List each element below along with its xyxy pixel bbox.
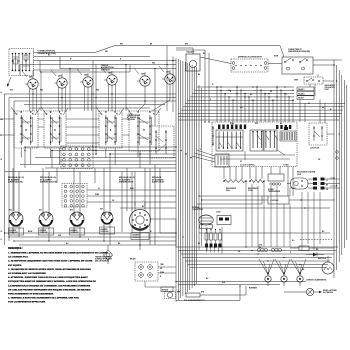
svg-text:H2: H2 bbox=[32, 114, 34, 116]
svg-text:T-STAT: T-STAT bbox=[283, 164, 290, 167]
svg-text:OR: OR bbox=[326, 189, 328, 191]
label: connecteur du gradateur bbox=[38, 51, 57, 55]
chassis ground G1 bbox=[284, 288, 337, 295]
wire: nested corner at right bbox=[199, 231, 332, 242]
svg-text:VENT: VENT bbox=[294, 80, 298, 82]
terminal block fan-in wires bbox=[259, 259, 306, 275]
svg-text:CONV FOUR: CONV FOUR bbox=[310, 147, 320, 149]
connector hatch row P4 bbox=[205, 229, 222, 244]
label: temoin elements surface bbox=[101, 65, 115, 71]
svg-text:ARRIERE GAUCHE: ARRIERE GAUCHE bbox=[40, 181, 58, 184]
svg-text:1- DEBRANCHER L'APPAREIL DU SE: 1- DEBRANCHER L'APPAREIL DU SECTEUR AVAN… bbox=[8, 252, 108, 255]
wire: crossings between switch boxes bbox=[0, 119, 129, 143]
relay switch S5 bbox=[150, 126, 174, 158]
svg-text:V: V bbox=[200, 149, 201, 151]
wire: mid link horizontals bbox=[197, 188, 335, 208]
svg-text:SELECT: SELECT bbox=[298, 98, 304, 100]
wire: verticals from band to elements bbox=[13, 148, 145, 207]
wire: band to right at y147-168 bbox=[5, 147, 177, 172]
wire: right side verticals to vent/relays bbox=[300, 84, 325, 123]
thermal fuse F1 bbox=[290, 246, 318, 251]
svg-text:H2: H2 bbox=[60, 114, 62, 116]
svg-text:N: N bbox=[1, 239, 2, 241]
svg-text:W12: W12 bbox=[120, 44, 123, 46]
terminal block TB1 (top-left dimmer connector) bbox=[9, 49, 34, 76]
svg-text:H2: H2 bbox=[153, 114, 155, 116]
diode D1 bbox=[306, 253, 324, 257]
power terminal 1 bbox=[265, 272, 271, 286]
conv-four relay box bbox=[309, 123, 327, 149]
dimmer switch assembly DM1 bbox=[268, 56, 342, 78]
svg-text:H1: H1 bbox=[16, 114, 18, 116]
svg-text:L1: L1 bbox=[1, 92, 3, 94]
wire: clock box to coils verticals bbox=[224, 167, 293, 197]
svg-text:GY: GY bbox=[240, 161, 242, 163]
svg-text:L1: L1 bbox=[326, 180, 328, 182]
surface switch SW5 bbox=[137, 72, 150, 90]
connector P2 grid bbox=[62, 184, 87, 208]
wire: ballast to fluorescent bbox=[176, 48, 231, 64]
surface element E5 (large) bbox=[130, 202, 151, 240]
label: temoin indicateur elements bbox=[95, 256, 112, 263]
svg-text:BU: BU bbox=[280, 123, 282, 125]
wire: right-half horizontal grid bbox=[178, 87, 345, 120]
junction dots scatter bbox=[4, 60, 340, 287]
notes text block bbox=[8, 247, 108, 304]
bake resistance coil R-FOUR bbox=[248, 180, 265, 193]
svg-text:BK: BK bbox=[326, 185, 328, 187]
svg-text:EST EQUIPE.: EST EQUIPE. bbox=[8, 265, 22, 267]
power terminal 2 bbox=[281, 272, 287, 286]
svg-text:W33: W33 bbox=[100, 209, 103, 211]
wire: horizontals right of P2 grid bbox=[87, 190, 176, 208]
svg-text:APPAREILS FLUORESCENTS: APPAREILS FLUORESCENTS bbox=[238, 56, 263, 59]
svg-text:W31: W31 bbox=[39, 210, 42, 212]
svg-text:REMARQUE :: REMARQUE : bbox=[8, 247, 23, 250]
svg-text:CENTRAL: CENTRAL bbox=[127, 118, 135, 121]
oven sensor SONDE bbox=[268, 174, 284, 193]
wire labels bottom-left bbox=[28, 231, 152, 245]
label: bornier bbox=[249, 288, 258, 290]
surface switch SW4 bbox=[104, 71, 117, 89]
svg-text:LE SCHEMA AVEC LA FOURNITURE.: LE SCHEMA AVEC LA FOURNITURE. bbox=[8, 272, 47, 275]
svg-text:5- VERIFIER LE BON FONCTIONNEM: 5- VERIFIER LE BON FONCTIONNEMENT DE L'A… bbox=[8, 297, 79, 300]
wire: switch row drops bbox=[22, 66, 170, 111]
relay label boxes stack bbox=[297, 87, 314, 100]
broil resistance coil R-GRIL bbox=[223, 180, 247, 193]
svg-text:BU: BU bbox=[322, 231, 324, 233]
aux control box bbox=[268, 196, 289, 204]
svg-text:W10: W10 bbox=[185, 44, 188, 46]
svg-text:CONNECTEUR ET: CONNECTEUR ET bbox=[288, 49, 302, 51]
infinite switch S1 bbox=[11, 107, 40, 148]
svg-text:DE CABLAGE PEUVENT ENTRAINER D: DE CABLAGE PEUVENT ENTRAINER DES RISQUES… bbox=[8, 288, 91, 291]
svg-text:H1: H1 bbox=[101, 114, 103, 116]
oven heat regulator module bbox=[287, 171, 340, 192]
label: relais indicator wires bbox=[130, 258, 176, 288]
svg-text:CONVECTION: CONVECTION bbox=[192, 209, 203, 211]
wire: right bus connectors to modules bbox=[318, 81, 337, 248]
junction dots on band bbox=[24, 146, 140, 154]
svg-text:Y: Y bbox=[286, 94, 287, 96]
connector P1 grid bbox=[61, 146, 93, 169]
indicator lamp cluster (dashed box) bbox=[135, 262, 158, 281]
arrow to TB1 bbox=[7, 77, 11, 87]
svg-text:FOIS LA REPARATION EFFECTUEE.: FOIS LA REPARATION EFFECTUEE. bbox=[8, 301, 46, 304]
svg-text:CLOCK CONTROL: CLOCK CONTROL bbox=[240, 165, 255, 167]
svg-text:W31: W31 bbox=[10, 90, 13, 92]
svg-text:L2: L2 bbox=[1, 231, 3, 233]
svg-text:W11: W11 bbox=[105, 51, 108, 53]
wire: bottom bus right half bbox=[176, 282, 306, 301]
wire: top bus from TB1 to right half bbox=[34, 46, 281, 61]
wire: mid verticals bbox=[41, 46, 173, 156]
svg-text:AVANT GAUCHE: AVANT GAUCHE bbox=[8, 181, 23, 184]
wire: right edge vertical bus bbox=[334, 60, 347, 278]
clock hatched block bbox=[280, 127, 296, 141]
wire: left edge verticals bbox=[5, 94, 15, 245]
clock left column bbox=[212, 126, 213, 146]
svg-text:AVANT DROIT: AVANT DROIT bbox=[152, 181, 165, 184]
wire: clock drop verticals bbox=[216, 86, 293, 122]
vent fan switch bbox=[294, 77, 336, 91]
svg-text:H2: H2 bbox=[116, 114, 118, 116]
wire: bottom-left horizontal bus bbox=[5, 233, 177, 245]
svg-text:W32: W32 bbox=[70, 210, 73, 212]
convection motor M1 bbox=[192, 207, 231, 228]
svg-text:BALLAST: BALLAST bbox=[187, 51, 196, 54]
indicator lamp L1 (diamond) bbox=[104, 245, 113, 264]
wire labels mid-left bbox=[95, 188, 144, 208]
wire: crossover band left-to-right y228-248 bbox=[150, 219, 176, 247]
svg-text:2- SE REPORTER UNIQUEMENT AUX: 2- SE REPORTER UNIQUEMENT AUX FONCTIONS … bbox=[8, 260, 93, 263]
surface switch SW6 bbox=[162, 70, 175, 88]
ballast B1 bbox=[186, 51, 200, 72]
svg-text:ARRIERE DROIT: ARRIERE DROIT bbox=[119, 181, 134, 184]
svg-text:GRIL: GRIL bbox=[226, 190, 230, 192]
fluorescent lamp assembly FL1 bbox=[231, 56, 268, 73]
surface element E2 bbox=[39, 207, 54, 235]
svg-text:GY: GY bbox=[98, 188, 100, 190]
wire: element interconnect verticals bbox=[13, 224, 110, 245]
power terminal 3 bbox=[297, 272, 303, 286]
surface switch SW1 bbox=[25, 75, 38, 93]
svg-text:ELEMENT: ELEMENT bbox=[133, 234, 140, 236]
connector merge P3 bbox=[192, 150, 229, 167]
clock switch bank 1 bbox=[216, 130, 243, 151]
svg-text:BU: BU bbox=[142, 206, 144, 208]
infinite switch S2 bbox=[41, 107, 68, 148]
svg-text:BK/W: BK/W bbox=[28, 231, 33, 233]
wire: horizontal band under switches bbox=[5, 94, 177, 108]
wire: upper-left verticals of right half bbox=[176, 50, 209, 122]
svg-text:BU: BU bbox=[48, 55, 50, 57]
clock internal wires bbox=[216, 136, 295, 161]
label row: element designations bbox=[8, 176, 165, 184]
wire: top bus into dimmer bbox=[280, 46, 284, 58]
surface element E4 bbox=[100, 206, 115, 234]
wire: secondary top bus bbox=[20, 57, 176, 76]
surface switch SW2 bbox=[54, 74, 67, 92]
svg-text:FONCTIONNEMENT ET ETRE DANGERE: FONCTIONNEMENT ET ETRE DANGEREUX. bbox=[8, 293, 54, 296]
wire: left vertical bus of right half bbox=[176, 58, 202, 302]
svg-text:W30: W30 bbox=[9, 210, 12, 212]
svg-text:MOTEUR: MOTEUR bbox=[162, 289, 168, 291]
svg-text:LA REPARATION D'ORGANES DE COM: LA REPARATION D'ORGANES DE COMMANDE. LES… bbox=[8, 284, 91, 287]
oven lamp bbox=[318, 256, 334, 274]
svg-text:BU: BU bbox=[250, 94, 252, 96]
door lock coil windings bbox=[257, 245, 281, 252]
surface element E1 bbox=[9, 207, 24, 235]
label: commutateur element central bbox=[127, 114, 141, 121]
wire: drops into mid-right band bbox=[207, 181, 321, 254]
svg-text:LE COURANT-FILS.: LE COURANT-FILS. bbox=[8, 256, 29, 259]
wire: verticals around E4 E5 bbox=[122, 165, 160, 251]
svg-text:CONV: CONV bbox=[216, 212, 220, 214]
clock terminal row (dark) bbox=[218, 125, 291, 130]
wire: switch box bars to band verticals bbox=[21, 148, 150, 165]
svg-text:BORNIER: BORNIER bbox=[249, 288, 258, 290]
svg-text:W/V: W/V bbox=[240, 107, 243, 109]
svg-text:H1: H1 bbox=[46, 114, 48, 116]
clock switch bank 2 bbox=[250, 130, 278, 151]
label: connecteur et gradateur accessoire bbox=[288, 49, 311, 53]
clock control module boundary bbox=[212, 122, 297, 167]
left margin wire labels bbox=[1, 89, 100, 242]
svg-text:3- TECHNICIEN DE SERVICE APRES: 3- TECHNICIEN DE SERVICE APRES-VENTE, VE… bbox=[8, 268, 91, 271]
accelerator potentiometer bbox=[161, 286, 246, 302]
infinite switch S3 bbox=[96, 107, 124, 148]
svg-text:(SELON MODELE): (SELON MODELE) bbox=[95, 261, 109, 263]
svg-text:D'ETIQUETTES AVANT DE DEBRANCH: D'ETIQUETTES AVANT DE DEBRANCHER L'APPAR… bbox=[8, 280, 96, 283]
label: cordon d'alimentation bbox=[306, 279, 327, 282]
top bus wire labels bbox=[48, 44, 188, 65]
svg-text:V: V bbox=[210, 99, 211, 101]
svg-text:MOTEUR: MOTEUR bbox=[192, 207, 200, 209]
surface element E3 bbox=[70, 207, 85, 235]
wire labels right half bbox=[198, 74, 332, 284]
svg-text:W32: W32 bbox=[40, 90, 43, 92]
wire: mid-right horizontal band bbox=[176, 247, 338, 268]
svg-text:GY: GY bbox=[308, 103, 310, 105]
infinite switch S4 bbox=[126, 107, 161, 151]
svg-text:BU: BU bbox=[206, 278, 208, 280]
connector dark row P5 bbox=[205, 244, 222, 248]
surface switch SW3 bbox=[80, 73, 93, 91]
svg-text:4- ATTENTION : IDENTIFIER TOUS: 4- ATTENTION : IDENTIFIER TOUS LES FILS … bbox=[8, 276, 88, 279]
